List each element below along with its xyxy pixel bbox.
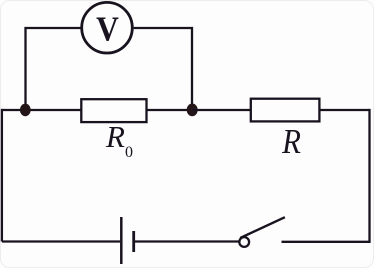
resistor R xyxy=(251,99,320,122)
svg-text:R: R xyxy=(281,123,301,161)
wire xyxy=(2,109,81,111)
wire xyxy=(135,240,239,242)
svg-text:R0: R0 xyxy=(105,119,133,161)
battery cell xyxy=(121,217,133,264)
wire xyxy=(2,240,120,242)
wire xyxy=(319,109,369,111)
switch S xyxy=(239,217,285,247)
node right junction xyxy=(187,104,198,117)
svg-text:V: V xyxy=(96,10,119,49)
wire xyxy=(368,109,370,242)
wire xyxy=(1,109,3,242)
wire xyxy=(147,109,193,111)
resistor R0 xyxy=(81,99,146,122)
wire xyxy=(282,241,371,243)
wire xyxy=(26,28,82,110)
voltmeter V xyxy=(82,2,133,53)
wire xyxy=(134,28,192,110)
node left junction xyxy=(20,104,31,117)
wire xyxy=(192,109,251,111)
